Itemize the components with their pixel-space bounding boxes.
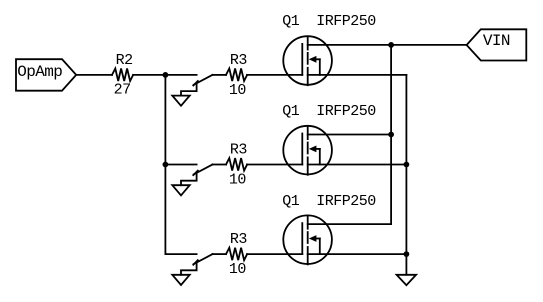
wire feed to switch S3 [165,253,196,255]
svg-text:27: 27 [114,82,131,99]
switch S2 blade [194,165,213,175]
wire Q1 source to source bus [308,74,407,76]
svg-text:R3: R3 [230,52,248,69]
wire R3 to Q3 gate [247,253,302,255]
wire R3 to Q2 gate [247,164,302,166]
switch S3 blade [194,254,213,264]
Q1 channel bar (3 segments) [307,38,309,50]
junction source bus row3 [404,251,410,257]
junction source bus row2 [404,162,410,168]
switch S1 blade [194,75,213,85]
switch S2 contact tick [193,171,198,176]
wire drain bus vertical [390,45,392,224]
wire switch S1 to ground [181,84,197,96]
Q2 gate bar [301,134,303,165]
wire R3 to Q1 gate [247,74,302,76]
wire switch S3 to R3 row3 [213,253,227,255]
wire vertical feed node A down [164,75,166,254]
Q2 body-diode arrow [313,148,320,150]
Q1 body-diode arrow [313,58,320,60]
svg-text:R2: R2 [116,52,133,69]
resistor R3 row1 [226,69,247,82]
junction node A row2 [163,162,169,168]
wire Q2 drain to drain bus [308,134,391,136]
port tag VIN [467,29,527,60]
wire switch S2 to ground [181,173,197,185]
svg-text:R3: R3 [230,141,248,158]
wire source bus vertical [405,75,407,275]
resistor R3 row2 [226,158,247,171]
transistor Q1 IRFP250 (M2) body circle [283,126,332,175]
svg-text:Q1 IRFP250: Q1 IRFP250 [282,193,376,210]
Q3 channel bar (3 segments) [307,217,309,229]
svg-text:VIN: VIN [483,32,510,50]
Q1 gate bar [301,44,303,75]
wire feed to switch S2 [165,164,196,166]
wire Q3 drain to drain bus [308,223,391,225]
wire switch S3 to ground [181,263,197,275]
transistor Q1 IRFP250 (M3) body circle [283,215,332,264]
junction drain bus row1 [388,42,394,48]
transistor Q1 IRFP250 (M1) body circle [283,36,332,85]
svg-text:10: 10 [229,261,247,278]
switch S3 contact tick [193,260,198,265]
svg-text:10: 10 [229,82,247,99]
Q2 channel bar (3 segments) [307,127,309,139]
wire OpAmp tag to R2 [76,74,112,76]
wire R2 to switch S1 (node A) [133,74,197,76]
svg-text:Q1 IRFP250: Q1 IRFP250 [282,13,376,30]
svg-text:R3: R3 [230,231,248,248]
wire Q1 drain to drain bus [308,44,391,46]
wire switch S2 to R3 row2 [213,164,227,166]
Q3 gate bar [301,223,303,254]
resistor R2 [112,69,133,82]
svg-text:10: 10 [229,171,247,188]
ground (switch S2) [172,185,189,195]
Q3 body-diode arrow [313,238,320,240]
wire drain bus to VIN tag [391,44,467,46]
svg-text:Q1 IRFP250: Q1 IRFP250 [282,103,376,120]
wire Q2 source to source bus [308,164,407,166]
switch S1 contact tick [193,81,198,86]
junction drain bus row2 [388,132,394,138]
wire switch S1 to R3 row1 [213,74,227,76]
wire Q3 source to source bus [308,253,407,255]
ground (source bus) [397,275,417,285]
svg-text:OpAmp: OpAmp [17,63,62,81]
port tag OpAmp [16,59,76,90]
ground (switch S1) [172,96,189,106]
resistor R3 row3 [226,248,247,261]
junction node A [163,72,169,78]
ground (switch S3) [172,275,189,285]
